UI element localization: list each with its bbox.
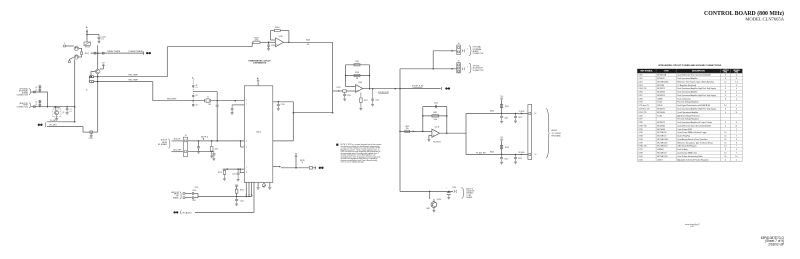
5V source pin right of U201 xyxy=(273,166,279,168)
svg-text:(NOTE 2): (NOTE 2) xyxy=(201,136,209,138)
wire and off-page 5V xyxy=(313,167,317,169)
svg-text:R221: R221 xyxy=(85,53,89,55)
crystal circle below U201 xyxy=(263,183,265,184)
note marker square xyxy=(336,144,338,146)
capacitor to ground upper RF wire xyxy=(501,114,503,117)
svg-text:C5: C5 xyxy=(35,102,37,104)
connector pin J2-2 xyxy=(68,61,70,63)
svg-text:RF BOARD: RF BOARD xyxy=(552,134,562,137)
connector box J3 xyxy=(183,137,187,156)
vertical to RF wires x=466 xyxy=(465,114,467,155)
svg-text:U732: U732 xyxy=(638,132,642,134)
svg-text:R421: R421 xyxy=(433,112,437,114)
svg-text:9: 9 xyxy=(260,180,261,182)
svg-text:C4: C4 xyxy=(35,90,37,92)
off-page synth branch xyxy=(400,88,441,90)
capacitor C230 to ground on right stub xyxy=(277,102,279,104)
feedback right leg xyxy=(369,65,371,89)
svg-text:MC74HC244: MC74HC244 xyxy=(657,156,667,158)
svg-text:R432: R432 xyxy=(490,152,494,154)
svg-text:U738: U738 xyxy=(638,152,642,154)
svg-text:14: 14 xyxy=(724,152,726,154)
Q1 emitter to ground xyxy=(56,115,58,119)
svg-text:5V: 5V xyxy=(102,63,105,65)
brace audio squelch block xyxy=(461,187,463,198)
svg-text:GROUND: GROUND xyxy=(733,70,741,72)
svg-text:C450: C450 xyxy=(452,187,456,189)
svg-text:MC33002: MC33002 xyxy=(657,92,665,94)
transistor Q222 xyxy=(95,69,100,74)
svg-text:Dual Operational Amplifier: Dual Operational Amplifier xyxy=(677,91,698,94)
svg-text:+: + xyxy=(446,188,448,190)
svg-text:C242: C242 xyxy=(240,200,244,202)
svg-text:U731: U731 xyxy=(638,129,642,131)
svg-text:14: 14 xyxy=(724,132,726,134)
svg-text:U726: U726 xyxy=(638,115,642,117)
svg-text:Y200: Y200 xyxy=(194,187,198,189)
svg-text:4: 4 xyxy=(736,95,737,97)
svg-text:THERMOMETRIC CIRCUIT: THERMOMETRIC CIRCUIT xyxy=(248,60,271,62)
off-page audio return xyxy=(180,211,183,215)
svg-text:C240: C240 xyxy=(192,190,196,192)
table header row xyxy=(637,69,742,73)
svg-text:U2_B: U2_B xyxy=(435,127,440,129)
svg-text:U1B: U1B xyxy=(279,36,283,38)
svg-text:C216: C216 xyxy=(214,149,218,151)
capacitor to ground hanging from wire2 xyxy=(66,107,68,109)
power stub on lower RF wire xyxy=(501,141,503,155)
bottom pin stubs of U201 xyxy=(245,183,247,195)
svg-text:8-Bit Serial Shift Register: 8-Bit Serial Shift Register xyxy=(677,145,697,148)
svg-text:U735: U735 xyxy=(638,142,642,144)
svg-text:Adjustable 3-Terminal Positive: Adjustable 3-Terminal Positive Regulator xyxy=(677,158,709,161)
svg-text:2: 2 xyxy=(736,85,737,87)
svg-text:CONNECTION: CONNECTION xyxy=(17,107,29,109)
svg-text:0.1: 0.1 xyxy=(196,87,198,89)
svg-text:Reference Decapitator, Type 3: Reference Decapitator, Type 3 w/Serial S… xyxy=(677,141,712,144)
svg-text:TL431: TL431 xyxy=(657,115,662,117)
pin square wire1 xyxy=(92,76,94,78)
svg-text:U742: U742 xyxy=(638,159,642,161)
svg-text:C8: C8 xyxy=(196,85,198,87)
svg-text:Q1: Q1 xyxy=(62,112,64,114)
svg-text:Dual D Flip-Flop: Dual D Flip-Flop xyxy=(677,136,690,138)
svg-text:AUDIO: AUDIO xyxy=(552,129,558,132)
svg-text:9: 9 xyxy=(254,180,255,182)
svg-text:A+: A+ xyxy=(192,77,194,80)
wire THN TEMP y=76.7 xyxy=(94,76,168,78)
vertical joining wire1 to wire2 xyxy=(47,92,49,107)
svg-text:THN_TEMP: THN_TEMP xyxy=(167,98,177,100)
feedback legs op-amp3 xyxy=(422,107,424,132)
svg-text:14: 14 xyxy=(724,105,726,107)
pin2 stub with crystal load cap xyxy=(232,104,244,106)
svg-text:2: 2 xyxy=(246,104,247,106)
svg-text:2/18/02-UP: 2/18/02-UP xyxy=(768,243,784,247)
svg-text:4: 4 xyxy=(736,78,737,80)
connector marks row1 xyxy=(461,49,464,52)
feedback rail cap C420 y=106.6 xyxy=(423,106,447,108)
ground below Q450 xyxy=(433,208,435,210)
svg-text:16: 16 xyxy=(724,142,726,144)
svg-text:MOD_RET: MOD_RET xyxy=(173,150,181,152)
svg-text:C6: C6 xyxy=(35,104,37,106)
wire injector input y=106.7 xyxy=(31,106,74,108)
svg-text:5: 5 xyxy=(246,140,247,142)
wire1 corner up to oscillator input xyxy=(166,47,168,77)
svg-text:Quad Analog Switch w/Level Tra: Quad Analog Switch w/Level Translator xyxy=(677,138,708,141)
svg-text:RF: RF xyxy=(176,196,178,198)
svg-text:MODEL CLN7665A: MODEL CLN7665A xyxy=(745,17,784,22)
svg-text:U734: U734 xyxy=(638,139,642,141)
capacitor hanging x=515.5 upper xyxy=(515,114,517,117)
svg-text:Precision Voltage Regulator: Precision Voltage Regulator xyxy=(677,101,699,104)
svg-text:RF BOARD: RF BOARD xyxy=(158,143,168,146)
capacitor C242 below audio bus xyxy=(236,196,238,199)
svg-text:220k: 220k xyxy=(255,39,259,41)
plus input ground of op-amp3 xyxy=(429,134,432,136)
connector J6 box xyxy=(528,105,532,160)
svg-text:A+: A+ xyxy=(86,26,89,29)
bottom wire y=191.4 xyxy=(400,190,453,192)
svg-text:7: 7 xyxy=(467,48,468,50)
capacitor C214 below output to ground xyxy=(372,89,374,99)
svg-text:Dual Operational Amplifier, Hi: Dual Operational Amplifier, High Perf, S… xyxy=(677,94,716,97)
svg-text:MC34074B: MC34074B xyxy=(657,75,667,77)
decoupling cap C10 on A+ bus xyxy=(192,103,194,105)
svg-text:MC74HC4316: MC74HC4316 xyxy=(657,139,668,141)
svg-text:CONNECTOR: CONNECTOR xyxy=(473,53,485,55)
vertical bus from U1B output xyxy=(332,42,334,113)
capacitor to ground lower RF wire xyxy=(501,155,503,158)
svg-text:1: 1 xyxy=(725,85,726,87)
brace RF out xyxy=(546,109,549,159)
svg-text:U718 thru 723: U718 thru 723 xyxy=(638,107,649,110)
svg-text:C420: C420 xyxy=(434,103,438,105)
svg-text:U711 thru 717: U711 thru 717 xyxy=(638,104,649,107)
brace optional block xyxy=(29,89,31,95)
svg-text:C224: C224 xyxy=(89,138,93,140)
svg-text:TO RF: TO RF xyxy=(466,195,471,197)
svg-text:1: 1 xyxy=(64,43,65,45)
feedback network U1A rail 1 (cap) xyxy=(346,64,370,66)
power stub 5V near Q222 xyxy=(102,64,105,66)
svg-text:J4: J4 xyxy=(458,43,460,45)
svg-text:THN_TEMP: THN_TEMP xyxy=(128,79,138,81)
capacitor stack above wire2 xyxy=(39,100,41,106)
pin square wire2 xyxy=(92,81,94,83)
svg-text:7, 8: 7, 8 xyxy=(735,81,738,83)
svg-text:MC74HC164: MC74HC164 xyxy=(657,146,667,148)
svg-text:(NOTE: (NOTE xyxy=(300,160,305,162)
feedback resistor R204 xyxy=(274,29,280,31)
power stub 5V xyxy=(295,155,298,157)
power pin A+ top of U201 xyxy=(257,82,259,86)
capacitor hanging x=515.5 lower xyxy=(515,155,517,158)
svg-text:MC74HC74: MC74HC74 xyxy=(657,136,666,138)
resistor R221 between transistors xyxy=(81,49,83,52)
main vertical bus x=400 xyxy=(399,69,401,192)
svg-text:AUDIO &: AUDIO & xyxy=(466,188,474,191)
capacitor C213 to ground xyxy=(344,92,346,94)
svg-text:4: 4 xyxy=(736,105,737,107)
svg-text:6: 6 xyxy=(246,147,247,149)
svg-text:U704, 705: U704, 705 xyxy=(638,88,646,90)
wire audio upper branch xyxy=(185,193,192,195)
pins audio in xyxy=(183,193,185,195)
connector pin J2-1 xyxy=(64,45,66,47)
svg-text:R430: R430 xyxy=(490,111,494,113)
svg-text:8: 8 xyxy=(246,172,247,174)
table borders xyxy=(637,160,742,162)
svg-text:8: 8 xyxy=(725,95,726,97)
svg-text:MOD_IN: MOD_IN xyxy=(174,139,181,141)
svg-text:9: 9 xyxy=(246,180,247,182)
svg-text:U708: U708 xyxy=(638,98,642,100)
junction output U1B xyxy=(288,42,290,44)
svg-text:8: 8 xyxy=(725,88,726,90)
decoupling cap C9 on A+ bus xyxy=(192,95,194,97)
svg-text:7: 7 xyxy=(736,129,737,131)
off-page connector lower-left xyxy=(38,124,40,126)
svg-text:Dual Op Amp: Dual Op Amp xyxy=(677,148,687,151)
svg-text:R240: R240 xyxy=(240,190,244,192)
svg-text:C205: C205 xyxy=(355,61,359,63)
brace audio in xyxy=(180,192,182,199)
corner to op-amp2 input xyxy=(333,90,338,92)
vertical wire main left bus x=97.7 xyxy=(97,45,99,69)
svg-text:Dual Operational Amplifier: Dual Operational Amplifier xyxy=(677,77,698,80)
capacitor C220 xyxy=(98,35,100,37)
svg-text:DESCRIPTION: DESCRIPTION xyxy=(692,71,706,73)
svg-text:Dual Operational Amplifier, Hi: Dual Operational Amplifier, High Perf, S… xyxy=(677,107,716,110)
svg-text:REF SYMBOL: REF SYMBOL xyxy=(640,71,653,73)
svg-text:R451: R451 xyxy=(427,208,431,210)
svg-text:4: 4 xyxy=(736,98,737,100)
thermistor box RT1 xyxy=(84,42,91,45)
svg-text:10k: 10k xyxy=(307,44,310,46)
pin box row2 xyxy=(457,63,461,73)
connector row 1 riser xyxy=(432,51,434,69)
svg-text:0.1: 0.1 xyxy=(101,39,103,41)
svg-text:MC33072: MC33072 xyxy=(657,88,665,90)
svg-text:4: 4 xyxy=(736,108,737,110)
junction dots on XTAL wire xyxy=(192,100,194,102)
svg-text:Dual Operational Amplifier, Hi: Dual Operational Amplifier, High Perf, S… xyxy=(677,87,716,90)
svg-text:U724, 725: U724, 725 xyxy=(638,112,646,114)
svg-text:10: 10 xyxy=(735,156,737,158)
feedback loop U1B xyxy=(271,39,276,41)
svg-text:16: 16 xyxy=(724,139,726,141)
corner down at x=83 to y=132 wire xyxy=(82,127,84,133)
svg-text:8: 8 xyxy=(725,78,726,80)
right pin stub y=140.9 xyxy=(273,140,294,142)
svg-text:C219: C219 xyxy=(232,173,236,175)
svg-text:13: 13 xyxy=(535,154,537,156)
wire pin7 cluster y=169.1 xyxy=(223,168,245,170)
svg-text:1: 1 xyxy=(246,99,247,101)
svg-text:8: 8 xyxy=(725,122,726,124)
svg-text:R204: R204 xyxy=(275,27,279,29)
svg-text:0.1: 0.1 xyxy=(70,111,72,113)
audio bus y=196.4 xyxy=(197,194,199,198)
resistor R210 series xyxy=(343,90,346,92)
svg-text:RX_AUD_RET: RX_AUD_RET xyxy=(476,152,486,155)
svg-text:C3: C3 xyxy=(35,87,37,89)
svg-text:+SUPPLY: +SUPPLY xyxy=(722,70,729,72)
connector row 2 wire y=68.8 xyxy=(400,68,457,70)
svg-text:MC33072: MC33072 xyxy=(657,95,665,97)
connector bracket J1 left xyxy=(89,75,90,83)
svg-text:C433: C433 xyxy=(518,158,522,160)
svg-text:Y1: Y1 xyxy=(207,96,209,98)
svg-text:11: 11 xyxy=(735,125,737,127)
svg-text:Quad Operational Amplifier: Quad Operational Amplifier xyxy=(677,111,698,114)
svg-text:C203: C203 xyxy=(271,45,275,47)
svg-text:A+: A+ xyxy=(257,77,260,80)
connector row 1 wire y=50.8 xyxy=(433,50,457,52)
svg-text:7: 7 xyxy=(736,152,737,154)
wire THN ACTIVATE y=53 xyxy=(91,52,144,54)
svg-text:C7: C7 xyxy=(70,109,72,111)
svg-text:Quad Differential Input Operat: Quad Differential Input Operational Ampl… xyxy=(677,124,711,127)
svg-text:5V: 5V xyxy=(500,96,503,98)
svg-text:C10: C10 xyxy=(196,105,199,107)
electrolytic cap C450 xyxy=(448,191,450,193)
vertical joining right pins x=293.3 xyxy=(292,102,294,141)
svg-text:SQUELCH: SQUELCH xyxy=(466,191,475,193)
audio return wire y=212.4 xyxy=(195,211,254,213)
transistor Q220a xyxy=(74,46,78,50)
svg-text:FROM: FROM xyxy=(174,194,179,196)
svg-text:C214: C214 xyxy=(375,99,379,101)
svg-text:8: 8 xyxy=(736,139,737,141)
resistor R240 riser xyxy=(236,193,238,196)
resistor on wire1 xyxy=(90,76,94,78)
wire2 y=81.6 xyxy=(94,81,153,83)
svg-text:(RX AUDIO): (RX AUDIO) xyxy=(182,212,192,215)
svg-text:+5 Regulator (Switched): +5 Regulator (Switched) xyxy=(677,84,696,87)
wire upper y=121.8 xyxy=(47,121,75,123)
svg-text:R433: R433 xyxy=(505,147,509,149)
svg-text:U701: U701 xyxy=(638,78,642,80)
svg-text:MC33072: MC33072 xyxy=(657,108,665,110)
svg-text:9: 9 xyxy=(269,180,270,182)
svg-text:7: 7 xyxy=(736,132,737,134)
svg-text:U201: U201 xyxy=(256,131,262,133)
svg-text:4: 4 xyxy=(725,125,726,127)
feedback network U1A rail 2 (resistor) xyxy=(346,75,370,77)
svg-text:THN_TEMP: THN_TEMP xyxy=(128,74,138,76)
capacitor C203 to ground xyxy=(268,42,270,44)
svg-text:16.8: 16.8 xyxy=(208,104,211,106)
svg-text:MT33072: MT33072 xyxy=(657,78,664,80)
svg-text:MC14066: MC14066 xyxy=(657,129,665,131)
brace row2 xyxy=(469,63,471,73)
svg-text:R218: R218 xyxy=(218,172,222,174)
wire optional input y=92 xyxy=(31,91,47,93)
svg-text:Adj Shunt Voltage Reference: Adj Shunt Voltage Reference xyxy=(677,114,699,117)
feedback left leg xyxy=(345,65,347,87)
transistor Q220b xyxy=(74,55,78,59)
wire A continues to U201 pin5 xyxy=(188,140,245,142)
resistor R230 on 5V wire xyxy=(309,167,312,170)
transistor Q1 sensor xyxy=(55,107,57,111)
op-amp U1B xyxy=(275,38,283,47)
svg-text:Quad 2-Input NAND Gate: Quad 2-Input NAND Gate xyxy=(677,151,697,154)
svg-text:U1A: U1A xyxy=(358,81,362,84)
svg-text:4: 4 xyxy=(736,75,737,77)
svg-text:LM2904: LM2904 xyxy=(657,149,663,151)
svg-text:9: 9 xyxy=(249,180,250,182)
svg-text:U728: U728 xyxy=(638,122,642,124)
vertical from transistors down to wire upper xyxy=(74,59,76,121)
wire from right pins to bus x=332 at y=112.7 xyxy=(293,112,332,114)
capacitor stack above wire1 xyxy=(39,86,41,92)
svg-text:Triple 2-Input NOR: Triple 2-Input NOR xyxy=(677,128,692,131)
svg-text:U729, 730: U729, 730 xyxy=(638,125,646,127)
connector marks audio out xyxy=(453,190,456,193)
svg-text:7: 7 xyxy=(736,146,737,148)
ground pins below U201 xyxy=(257,183,259,187)
wire2 corner down to XTAL line xyxy=(152,82,154,101)
svg-text:100k: 100k xyxy=(433,119,437,121)
svg-text:NOTE: IC U201 is a custom inte: NOTE: IC U201 is a custom integrated cir… xyxy=(341,143,382,146)
wire A mod y=140.9 xyxy=(172,140,184,142)
svg-text:U702: U702 xyxy=(638,81,642,83)
svg-text:R211: R211 xyxy=(364,100,368,102)
svg-text:1M: 1M xyxy=(356,78,359,80)
svg-text:14: 14 xyxy=(724,136,726,138)
svg-text:4: 4 xyxy=(736,92,737,94)
resistor R214 to ground from wire A xyxy=(211,141,213,146)
svg-text:LM385: LM385 xyxy=(657,98,662,100)
resistor R218 hanging xyxy=(224,169,226,170)
RF wire upper y=113.5 xyxy=(466,113,528,115)
svg-text:Dual Operational Amplifier, Hi: Dual Operational Amplifier, Hi Output Cu… xyxy=(677,121,712,124)
output wire op-amp3 xyxy=(440,132,466,134)
power stub on upper RF wire xyxy=(501,100,503,114)
svg-text:8: 8 xyxy=(725,149,726,151)
svg-text:U700: U700 xyxy=(638,75,642,77)
svg-text:8: 8 xyxy=(736,142,737,144)
svg-text:THN ACTIVATE: THN ACTIVATE xyxy=(107,50,121,53)
svg-text:MC34064: MC34064 xyxy=(657,125,665,127)
brace mod in xyxy=(168,139,170,148)
svg-text:4: 4 xyxy=(736,122,737,124)
svg-text:U706: U706 xyxy=(638,92,642,94)
svg-text:Quad 2-Input NAND w/Schmitt Tr: Quad 2-Input NAND w/Schmitt Trigger xyxy=(677,131,707,134)
pin box row1 xyxy=(457,45,461,55)
svg-text:LM317: LM317 xyxy=(657,159,662,161)
svg-text:U736, 740: U736, 740 xyxy=(638,146,646,148)
svg-text:5V: 5V xyxy=(295,153,298,155)
svg-text:J1: J1 xyxy=(86,90,88,92)
svg-text:AUDIO IN: AUDIO IN xyxy=(171,191,179,194)
svg-text:11: 11 xyxy=(735,112,737,114)
svg-text:C9: C9 xyxy=(196,95,198,97)
wire lower y=126.6 xyxy=(47,126,83,128)
svg-text:9V: 9V xyxy=(500,137,503,139)
connector marks row2 xyxy=(461,67,464,70)
svg-text:U707: U707 xyxy=(638,95,642,97)
op-amp U2B xyxy=(432,129,440,137)
svg-text:1: 1 xyxy=(736,159,737,161)
svg-text:C230: C230 xyxy=(281,104,285,106)
svg-text:1): 1) xyxy=(302,162,304,164)
svg-text:INTEGRATED CIRCUIT POWER AND G: INTEGRATED CIRCUIT POWER AND GROUND CONN… xyxy=(658,64,722,67)
svg-text:RT220: RT220 xyxy=(85,46,90,48)
